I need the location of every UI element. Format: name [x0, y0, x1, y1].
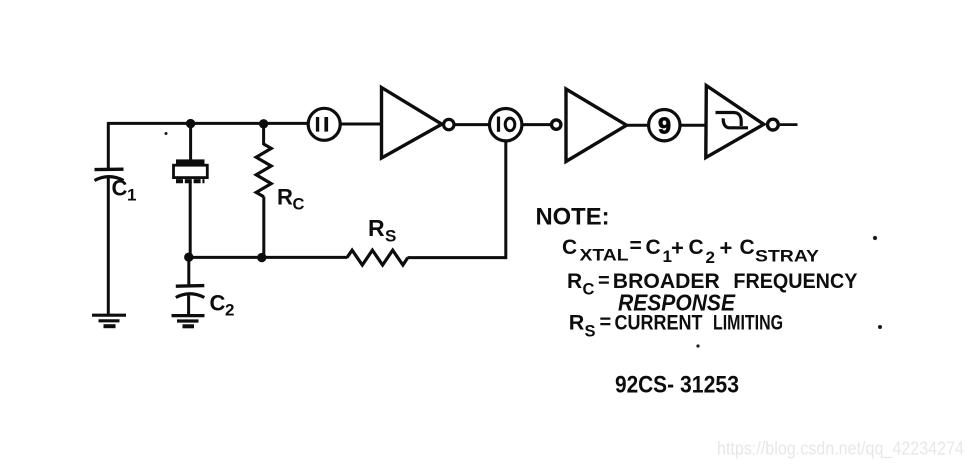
svg-text:NOTE:: NOTE:	[536, 204, 610, 231]
wire U1a bubble to node 10	[455, 123, 489, 126]
wire node 9 to U1c input	[682, 124, 707, 127]
capacitor C1	[95, 169, 124, 180]
label RC	[277, 185, 305, 214]
scan speck 3	[878, 325, 882, 329]
svg-text:C: C	[646, 236, 661, 259]
wire U1c output stub	[780, 123, 798, 126]
wire node 10 to U1b input bubble	[523, 123, 552, 126]
svg-text:31253: 31253	[680, 372, 739, 399]
ground (left, under C1)	[92, 315, 126, 326]
wire RC bottom	[262, 197, 265, 259]
svg-text:FREQUENCY: FREQUENCY	[733, 270, 857, 293]
wire top rail: node 11 to inverter U1a input	[342, 123, 382, 126]
svg-text:https://blog.csdn.net/qq_42234: https://blog.csdn.net/qq_42234274	[717, 439, 964, 460]
svg-text:S: S	[385, 227, 396, 246]
label C1	[112, 176, 137, 205]
wire U1b output to node 9	[627, 124, 648, 127]
crystal Y1	[174, 159, 208, 181]
svg-text:=: =	[630, 235, 642, 258]
junction dot: top node A (crystal)	[186, 119, 195, 128]
svg-text:C: C	[210, 291, 226, 316]
junction dot: top node B (RC)	[259, 119, 268, 128]
svg-text:CURRENT: CURRENT	[615, 312, 703, 335]
svg-text:C: C	[293, 196, 305, 214]
svg-text:STRAY: STRAY	[755, 247, 820, 266]
inverter U1a	[382, 88, 442, 159]
svg-text:C: C	[583, 281, 595, 299]
wire crystal top	[189, 122, 192, 161]
svg-text:1: 1	[127, 186, 136, 205]
wire lower rail right of RS	[408, 256, 506, 259]
svg-text:+: +	[720, 236, 733, 261]
junction dot: lower node D (RC bottom)	[257, 253, 266, 262]
pin 11 node circle	[308, 108, 340, 140]
wire C2 to ground	[187, 296, 190, 316]
svg-text:9: 9	[658, 113, 671, 139]
pin 9 node circle	[649, 110, 680, 141]
svg-text:R: R	[277, 185, 293, 210]
U1c output bubble	[768, 119, 779, 130]
svg-text:2: 2	[706, 248, 715, 267]
wire crystal bottom	[189, 183, 192, 258]
pin 10 node circle	[490, 109, 522, 141]
svg-text:XTAL: XTAL	[580, 246, 629, 265]
wire RC top	[262, 122, 265, 145]
svg-text:92CS-: 92CS-	[615, 372, 674, 399]
inverter U1b	[566, 89, 627, 162]
wire C2 top	[187, 256, 190, 286]
svg-text:+: +	[671, 236, 684, 261]
scan speck 2	[873, 236, 877, 240]
svg-text:C: C	[562, 236, 577, 259]
label RS	[368, 215, 396, 246]
scan speck 4	[696, 344, 699, 347]
svg-text:S: S	[585, 323, 596, 341]
svg-text:2: 2	[225, 301, 234, 320]
svg-text:R: R	[567, 270, 582, 293]
U1c hysteresis symbol	[716, 113, 749, 128]
resistor RC	[256, 144, 271, 197]
wire feedback vertical from node 10	[504, 142, 507, 260]
svg-text:C: C	[689, 236, 704, 259]
svg-text:=: =	[600, 312, 612, 334]
svg-text:C: C	[740, 236, 755, 259]
wire lower rail left of RS	[189, 256, 348, 259]
svg-text:R: R	[569, 311, 585, 335]
note line 4: Rs = current limiting	[569, 311, 783, 341]
note line 2: Rc = broader frequency	[567, 270, 857, 299]
capacitor C2	[176, 286, 205, 298]
U1b input bubble	[552, 120, 561, 129]
wire top rail left segment	[108, 122, 308, 125]
scan speck 1	[165, 132, 168, 135]
wire left vertical to C1	[107, 122, 110, 169]
svg-text:=: =	[598, 270, 610, 292]
wire C1 to ground	[107, 178, 110, 315]
ground (under C2)	[172, 316, 205, 327]
U1a output bubble	[444, 119, 454, 129]
label C2	[210, 291, 235, 320]
svg-text:LIMITING: LIMITING	[713, 312, 783, 335]
svg-text:R: R	[368, 215, 385, 241]
svg-text:C: C	[112, 176, 128, 201]
junction dot: lower node C (C2)	[184, 253, 193, 262]
resistor RS	[347, 250, 408, 265]
note line 1: Cxtal = C1 + C2 + Cstray	[562, 235, 820, 268]
schmitt inverter U1c	[706, 86, 764, 158]
